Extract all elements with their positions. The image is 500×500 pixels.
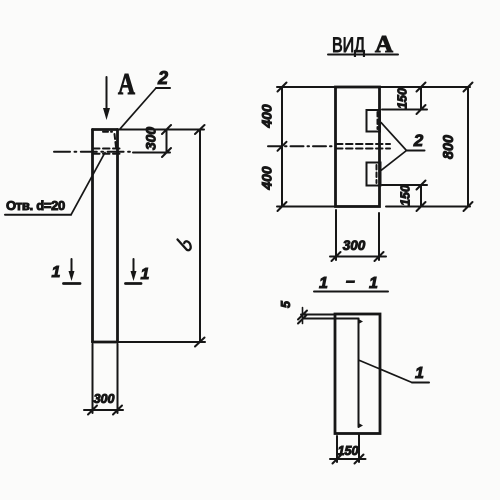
svg-text:1: 1 [319,275,328,292]
svg-text:300: 300 [94,392,115,406]
svg-text:300: 300 [143,127,159,151]
svg-text:2: 2 [157,68,168,88]
dim 150 upper right [396,83,426,115]
right extension lines [381,87,470,207]
svg-text:–: – [346,273,355,290]
length dimension line (l) [195,125,205,347]
dim 5 (top) [279,300,359,324]
dim 150 bottom (section) [330,435,366,464]
dim 400/400 vertical line [259,83,287,212]
leader hole label [5,153,105,215]
label 2 with double leader [381,123,425,171]
length label (script l) [178,240,191,251]
extension line at hole level [133,152,170,154]
svg-text:800: 800 [441,135,457,159]
centerline (front view) [268,145,333,147]
top dimension line to length dim [118,129,205,131]
svg-text:150: 150 [399,185,413,206]
panel outline (side view) [93,130,118,343]
dim 300 bottom (side view) [84,344,123,415]
svg-text:1: 1 [415,365,424,382]
section outline [335,314,380,434]
svg-text:1: 1 [141,266,150,283]
svg-text:Отв. d=20: Отв. d=20 [6,198,65,213]
centerline (dash-dot) [54,151,130,153]
dim 300 bottom (front view) [330,210,386,261]
svg-text:400: 400 [259,166,275,191]
svg-text:A: A [118,66,135,101]
dim 150 lower right [399,181,426,212]
svg-text:150: 150 [396,88,410,109]
label 2 (top leader) [120,68,171,130]
leader label 1 [359,360,430,383]
dim 300 vertical (top offset) [143,125,172,157]
bottom line to length dim [118,341,206,343]
title 1 - 1 [314,273,388,292]
section mark left (1) [52,259,80,284]
hidden hole lines (front view) [336,144,390,149]
svg-text:5: 5 [279,300,293,308]
inner plate line [359,319,364,429]
hidden plate mark (dashed, top right of panel) [103,132,116,147]
svg-text:400: 400 [259,104,275,129]
view arrow A shaft [103,77,110,120]
svg-text:1: 1 [369,275,378,292]
hidden hole lines (dashed) [93,149,121,154]
panel outline (front view) [336,87,380,207]
svg-text:1: 1 [52,264,61,281]
lower embedded plate [367,163,381,186]
svg-text:2: 2 [413,131,424,150]
title VID A [328,32,398,58]
upper embedded plate [367,110,381,132]
svg-text:150: 150 [338,444,359,458]
section mark right (1) [126,259,150,284]
left extension lines [277,87,336,207]
dim 800 [441,83,473,212]
svg-text:300: 300 [343,238,366,253]
